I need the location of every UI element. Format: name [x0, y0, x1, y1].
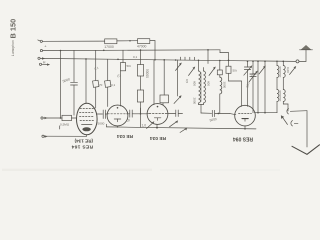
junction dots feeder [85, 58, 284, 62]
svg-text:50t: 50t [233, 69, 237, 73]
svg-text:600: 600 [207, 81, 211, 86]
svg-text:2000: 2000 [193, 98, 197, 105]
svg-text:600: 600 [193, 81, 197, 86]
wire anode line to output transformer [254, 112, 277, 114]
switch S1b arrow upper [176, 63, 182, 71]
resistor R10 above V4 [226, 66, 242, 106]
wire bandfilter A bottoms [199, 105, 212, 114]
label V3 RE 034 [150, 135, 166, 141]
svg-text:70: 70 [99, 83, 103, 87]
svg-text:0,1: 0,1 [111, 83, 116, 87]
wire riser mid right 2 [264, 61, 266, 112]
svg-text:3000: 3000 [222, 82, 226, 89]
tube V3 RE034 [147, 104, 168, 125]
terminal pickup input [41, 117, 62, 119]
wire V2 cathode down [117, 126, 119, 128]
wire riser mid right 1 [257, 61, 259, 112]
variable capacitor C6 arrow on rail [170, 120, 188, 132]
resistor R8 above V3 [160, 60, 169, 105]
capacitor C7 to V4 grid [209, 110, 236, 122]
svg-text:5000: 5000 [98, 122, 105, 126]
wire riser to V1 grid network [60, 51, 62, 119]
wire V3 cathode down [156, 124, 158, 128]
wire V1 anode riser [85, 59, 87, 104]
capacitor C12 right of V3 [167, 60, 182, 117]
label V4 RES 094 [233, 136, 253, 142]
svg-text:0,60: 0,60 [286, 67, 290, 73]
terminal feeder left [38, 57, 45, 60]
resistor R3 grid V1 [60, 115, 72, 129]
coil L1 bandfilter primary [193, 60, 201, 104]
wire V1 anode to C2 [96, 113, 102, 115]
coil L6 output transformer secondary upper [283, 61, 290, 89]
resistor R2 on bus1 [137, 39, 150, 49]
svg-text:50000: 50000 [145, 69, 149, 78]
svg-text:0,5: 0,5 [185, 79, 189, 84]
resistor R5 above V2 right [116, 50, 130, 106]
svg-text:17000: 17000 [104, 45, 114, 49]
svg-text:50t: 50t [127, 64, 131, 68]
wire to earth [306, 111, 308, 147]
switch S6 output wiper [281, 104, 288, 125]
title caption Lumophon B 150 (rotated) [8, 19, 17, 56]
switch S3 arrow right of coil group A [209, 67, 216, 76]
capacitor C4 grid V3 [146, 113, 149, 115]
svg-text:(RE 134): (RE 134) [74, 139, 93, 144]
terminal + (plus supply) [40, 44, 47, 52]
wire V3 anode riser [153, 60, 155, 105]
core bandfilter A [200, 73, 202, 102]
capacitor C1 on riser x70 [62, 50, 77, 115]
svg-text:Lumophon: Lumophon [11, 40, 15, 56]
svg-text:RES 164: RES 164 [71, 144, 93, 150]
switch contact stubs on feeder [181, 57, 195, 60]
wire ground rail mid [107, 124, 257, 129]
capacitor C3 coupling V2-V3 [126, 110, 146, 123]
label 3000 near L3 [222, 82, 226, 89]
label 500 near C9 [245, 82, 250, 88]
earth symbol [292, 145, 320, 155]
label 0,1 near R6 [133, 55, 138, 59]
wire V4 cathode down [244, 126, 246, 130]
core output transformer upper [279, 67, 281, 78]
switch contact upper [287, 109, 307, 114]
scan smudge bottom [2, 169, 152, 171]
wire bus1 top [43, 40, 155, 60]
svg-text:1,0: 1,0 [142, 123, 147, 127]
terminal H (heater) [39, 61, 50, 66]
label V1 RES 164 [71, 144, 93, 150]
label V1 (RE 134) [74, 139, 93, 144]
label 1,0 [142, 123, 147, 127]
variable capacitor C9 [249, 61, 258, 113]
terminal chassis left [42, 135, 87, 138]
paper background [0, 0, 320, 173]
label 2000 under bandfilter A [193, 98, 197, 105]
svg-text:0,1: 0,1 [133, 55, 138, 59]
capacitor C2 coupling [98, 110, 108, 126]
capacitor C11 block above V2 [105, 59, 116, 106]
terminal supply top [38, 40, 43, 43]
capacitor C10 block above V2 [93, 50, 103, 108]
capacitor C8 above V4 [244, 61, 256, 106]
coil L8 lower [283, 90, 288, 105]
wire riser to wave switch [207, 50, 209, 64]
label 0,5 near S2 [185, 79, 189, 84]
resistor R11 small above coil L3 [217, 61, 222, 78]
variable capacitor C5 arrow on rail [147, 121, 155, 128]
svg-text:47000: 47000 [137, 45, 147, 49]
tube V4 RES094 [235, 105, 256, 126]
svg-text:0,5MΩ: 0,5MΩ [60, 123, 70, 127]
antenna connector plug [296, 60, 306, 63]
resistor R6 anode load [137, 50, 149, 90]
switch S2 arrow left of coil group A [189, 67, 196, 76]
switch contact lower [291, 121, 298, 126]
coil L5 output transformer primary upper [277, 61, 279, 89]
coil L3 single [220, 77, 222, 113]
resistor R7 grid leak [137, 90, 143, 127]
switch S5 arrow above L6 [290, 66, 297, 75]
svg-text:RE 034: RE 034 [150, 135, 166, 141]
wire feeder bus3 long [40, 58, 295, 61]
label m near C10 riser [94, 66, 100, 71]
junction dots bus2 [60, 49, 209, 51]
resistor R1 on bus1 [104, 39, 117, 49]
label V2 RE 034 [117, 133, 133, 139]
antenna A1 [300, 45, 313, 61]
wire V1 cathode down [86, 135, 88, 137]
wire R3 to V1 [60, 117, 76, 119]
tube V2 RE034 [107, 105, 128, 126]
coil L2 bandfilter secondary [204, 68, 211, 105]
wire bus2 [43, 50, 229, 66]
switch S1 arrow [174, 95, 182, 103]
svg-text:RE 034: RE 034 [117, 133, 133, 139]
svg-text:B 150: B 150 [8, 19, 17, 39]
switch S4 arrow above L5 [259, 66, 266, 75]
core output transformer lower [279, 91, 281, 102]
svg-text:RES 094: RES 094 [233, 136, 253, 142]
tube V1 RES164 [77, 103, 98, 135]
coil L7 lower [277, 90, 279, 113]
